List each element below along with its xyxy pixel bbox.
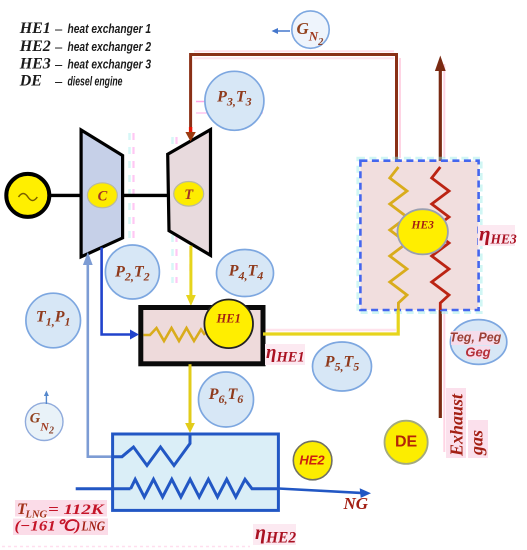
svg-text:HE2: HE2: [19, 38, 51, 55]
svg-text:HE3: HE3: [411, 220, 435, 232]
pipe HE1 to HE2: [189, 364, 192, 424]
node G N2 top: [292, 11, 329, 48]
svg-text:DE: DE: [19, 73, 42, 90]
exhaust stack line up: [439, 64, 442, 168]
HE2 top coil: [113, 434, 190, 466]
arrowhead into turbine: [189, 127, 192, 134]
arrowhead into HE1 left: [130, 330, 139, 340]
NG outlet pipe: [278, 489, 361, 493]
artifact bottom pink dotted line: [2, 546, 250, 548]
svg-text:HE3: HE3: [19, 56, 51, 73]
arrowhead into HE1: [186, 295, 196, 306]
node P3,T3: [205, 71, 264, 130]
svg-text:Exhaust: Exhaust: [447, 393, 467, 457]
svg-text:heat exchanger 3: heat exchanger 3: [68, 57, 152, 72]
svg-text:heat exchanger 2: heat exchanger 2: [68, 39, 152, 54]
pink shadow of hot N2 pipe: [194, 51, 444, 452]
svg-text:–: –: [54, 75, 62, 90]
shaft compressor-turbine: [122, 194, 169, 197]
shaft generator-compressor: [49, 194, 82, 197]
label circle HE2: [293, 441, 332, 480]
legend text: [19, 20, 152, 90]
arrowhead NG: [360, 488, 371, 498]
heat exchanger HE2 box: [113, 434, 279, 510]
compressor outlet pipe to HE1: [102, 248, 130, 335]
label eta HE2: [253, 522, 296, 547]
node T1,P1: [26, 293, 81, 348]
pipe HE1 to HE3: [263, 310, 398, 334]
svg-text:Teg, Peg: Teg, Peg: [450, 331, 502, 345]
artifact magenta dashed guide lines: [130, 133, 191, 285]
arrowhead exhaust up: [435, 56, 446, 72]
node P6,T6: [199, 372, 254, 427]
svg-text:gas: gas: [467, 430, 487, 456]
HE3 yellow coil: [390, 167, 407, 310]
cold N2 return pipe HE2 to compressor: [88, 263, 113, 457]
svg-text:= 112K: = 112K: [48, 502, 105, 518]
generator G: [6, 174, 49, 217]
svg-text:C: C: [98, 189, 108, 205]
HE2 bottom coil: [131, 479, 279, 497]
compressor C: [81, 130, 123, 257]
svg-text:DE: DE: [395, 433, 418, 450]
node P5,T5: [313, 342, 372, 391]
hot N2 pipe HE3 to turbine: [191, 55, 399, 169]
heat exchanger HE3 box: [358, 158, 481, 312]
arrowhead into HE2: [185, 423, 195, 433]
svg-text:HE2: HE2: [299, 453, 325, 468]
pink halo of pipe HE1 to HE3: [266, 329, 396, 331]
HE3 red coil: [432, 167, 449, 310]
svg-text:–: –: [54, 58, 62, 73]
svg-text:Geg: Geg: [465, 345, 490, 360]
svg-text:T: T: [184, 187, 194, 203]
HE3 label circle: [398, 209, 448, 254]
svg-text:heat exchanger 1: heat exchanger 1: [68, 21, 152, 36]
svg-text:LNG: LNG: [81, 520, 105, 535]
label Exhaust gas: [446, 388, 488, 458]
heat exchanger HE1 box: [141, 308, 263, 364]
turbine outlet pipe to HE1: [189, 246, 192, 297]
HE1 coil: [144, 328, 206, 341]
diesel engine DE: [385, 421, 428, 464]
node Teg Peg Geg: [450, 320, 507, 365]
node P4,T4: [217, 250, 274, 297]
label eta HE1: [265, 342, 305, 366]
artifact magenta lines across P3T3: [196, 102, 264, 114]
svg-text:NG: NG: [343, 494, 369, 513]
arrow N2 up: [44, 391, 49, 405]
exhaust line below HE3: [439, 310, 442, 418]
svg-text:diesel engine: diesel engine: [68, 74, 123, 89]
turbine T: [168, 130, 211, 256]
label T LNG: [13, 500, 108, 535]
svg-text:–: –: [54, 40, 62, 55]
svg-text:HE1: HE1: [19, 20, 51, 37]
arrow N2 out left: [272, 28, 291, 34]
svg-text:(−161℃): (−161℃): [15, 519, 81, 535]
svg-text:–: –: [54, 22, 62, 37]
svg-text:HE1: HE1: [216, 312, 241, 326]
node P2,T2: [105, 245, 159, 299]
arrowhead into compressor: [83, 252, 93, 265]
HE1 label circle: [204, 300, 253, 349]
node G N2 left: [25, 403, 63, 441]
label eta HE3: [478, 222, 517, 247]
LNG inlet pipe: [76, 487, 131, 490]
